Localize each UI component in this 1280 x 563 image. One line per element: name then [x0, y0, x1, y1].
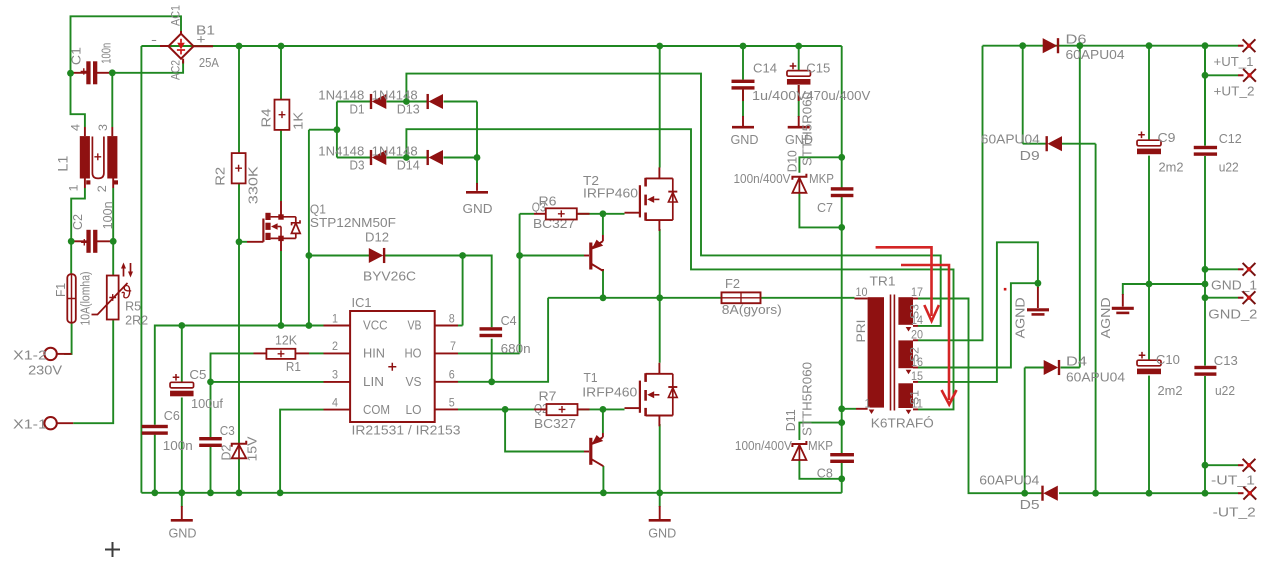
wire R1 left to C3 top corner	[211, 353, 254, 382]
svg-text:2R2: 2R2	[125, 313, 148, 328]
wire Q1 gate node down to zener D2 (crosses VCC, R1, LIN rows)	[238, 242, 240, 444]
svg-text:100n/400V: 100n/400V	[734, 171, 791, 186]
svg-text:1: 1	[865, 399, 871, 411]
svg-text:MKP: MKP	[808, 438, 833, 453]
svg-text:VCC: VCC	[363, 318, 388, 333]
wire GND_2 branch	[1205, 297, 1238, 299]
svg-text:1N4148: 1N4148	[372, 88, 418, 103]
junction at (281,46)	[278, 43, 285, 50]
ground symbol C15	[788, 126, 810, 129]
junction at (659.7,297.8)	[656, 294, 663, 301]
wire T2 source to half-bridge midpoint	[659, 229, 661, 298]
svg-text:100n: 100n	[163, 438, 193, 453]
connector X1-1	[44, 417, 56, 429]
svg-text:R2: R2	[213, 167, 228, 186]
junction at (112.3,72.8)	[109, 69, 116, 76]
svg-text:D3: D3	[350, 157, 365, 172]
transistor Q2 BC327 pnp	[584, 451, 589, 453]
TR1 secondary S2 bar	[898, 340, 913, 368]
svg-text:60APU04: 60APU04	[979, 473, 1039, 488]
svg-text:10: 10	[856, 287, 868, 299]
wire VCC row (pin 1) with C6 corner	[155, 326, 324, 425]
zener diode D2 15V	[232, 441, 247, 447]
wire D12 row left segment	[309, 255, 369, 257]
junction at (491.7,381.8)	[488, 378, 495, 385]
junction at (1095.6,493.2)	[1092, 490, 1099, 497]
svg-text:MKP: MKP	[809, 171, 834, 186]
junction at (239,241.8)	[236, 238, 243, 245]
wire VB junction to C4 top	[463, 256, 492, 328]
junction at (1079.8,45.7)	[1076, 42, 1083, 49]
junction at (113.2,241.3)	[110, 238, 117, 245]
wire R2 bottom to Q1 gate node	[238, 183, 240, 241]
junction at (603,297.8)	[600, 294, 607, 301]
svg-text:AC1: AC1	[169, 5, 183, 26]
diode D5 60APU04	[1043, 486, 1058, 501]
svg-text:GND: GND	[169, 526, 197, 541]
wire TR1 pin 17 down to D5 / D4 anode	[918, 299, 1042, 494]
transformer TR1 primary winding bar	[868, 297, 884, 407]
junction at (659.7,46)	[656, 43, 663, 50]
IC1 origin cross	[388, 363, 396, 371]
svg-text:2: 2	[97, 185, 109, 192]
svg-text:12K: 12K	[275, 333, 297, 348]
wire rail to R2 top	[238, 46, 240, 153]
junction at (477,157.5)	[474, 154, 481, 161]
svg-text:HO: HO	[405, 346, 422, 361]
svg-text:25A: 25A	[199, 55, 219, 70]
diode D4 60APU04	[1044, 360, 1059, 375]
svg-text:IR21531 / IR2153: IR21531 / IR2153	[352, 423, 461, 438]
junction at (841.7,227.4)	[838, 224, 845, 231]
junction at (70.5,73.2)	[67, 70, 74, 77]
junction at (210.5,492.8)	[207, 489, 214, 496]
capacitor C14 1u/400V	[732, 80, 755, 83]
red annotation arrow 2 to TR1 pin 11	[901, 265, 957, 405]
IC1 pin 7 line	[435, 352, 458, 354]
junction at (841.7,157.3)	[838, 154, 845, 161]
svg-text:100n: 100n	[100, 201, 115, 229]
svg-text:STP12NM50F: STP12NM50F	[310, 215, 396, 230]
wire charge pump column x=309 up to D1/D3 node	[308, 130, 310, 256]
IC1 pin 6 line	[435, 381, 458, 383]
svg-text:C4: C4	[501, 313, 517, 328]
wire D13 anode corner down to D14 node	[476, 102, 478, 158]
svg-text:C5: C5	[189, 367, 206, 382]
wire C4 bottom lead	[491, 339, 493, 382]
diode D9 60APU04	[1048, 136, 1063, 151]
junction at (71.2,241.3)	[68, 238, 75, 245]
svg-text:D4: D4	[1066, 353, 1087, 368]
wire D10 snubber loop	[799, 157, 841, 173]
wire zener D2 anode to bottom rail	[238, 459, 240, 493]
svg-text:IRFP460: IRFP460	[583, 185, 638, 200]
R5 current arrows	[124, 263, 131, 277]
svg-text:C1: C1	[69, 47, 84, 65]
thermistor R5	[107, 276, 119, 320]
svg-text:1K: 1K	[290, 112, 305, 130]
junction at (743,46)	[740, 43, 747, 50]
svg-text:PRI: PRI	[854, 320, 868, 343]
junction at (281,325.5)	[278, 322, 285, 329]
red annotation arrow 1 to TR1 pin 14	[876, 247, 939, 321]
wire C1 left to L1 pin 4	[71, 73, 85, 127]
svg-text:R6: R6	[539, 193, 557, 208]
junction at (462.6,255.5)	[459, 252, 466, 259]
svg-text:AGND: AGND	[1013, 297, 1028, 338]
svg-text:-: -	[151, 32, 157, 47]
junction at (505.1,409.4)	[502, 406, 509, 413]
wire Q1 source to VCC row	[280, 251, 282, 326]
wire LO net: pin5 row to R7	[458, 408, 534, 410]
wire GND stub mid	[659, 493, 661, 507]
svg-text:C6: C6	[164, 408, 180, 423]
svg-text:15V: 15V	[245, 436, 260, 461]
wire T1 source to bottom rail	[659, 424, 661, 493]
svg-text:C12: C12	[1219, 131, 1242, 146]
svg-text:C3: C3	[220, 423, 235, 438]
TR1 winding polarity arrows	[869, 410, 875, 415]
svg-text:100n/400V: 100n/400V	[735, 438, 792, 453]
terminal +UT_2	[1238, 74, 1244, 76]
wire D6 cathode drop to D9 right / D4 cathode riser	[1079, 46, 1081, 368]
wire F1 bottom to X1-2	[64, 323, 72, 354]
junction at (841.7,478.8)	[838, 475, 845, 482]
ground symbol left	[171, 519, 193, 522]
wire R5 bottom to X1-1	[73, 320, 113, 424]
svg-text:470u/400V: 470u/400V	[806, 88, 870, 103]
svg-text:HIN: HIN	[363, 346, 385, 361]
junction at (336.9,129.7)	[334, 126, 341, 133]
svg-text:C8: C8	[817, 466, 833, 481]
svg-text:IRFP460: IRFP460	[582, 385, 637, 400]
svg-text:AGND: AGND	[1098, 297, 1113, 338]
TR1 secondary S1 bar	[898, 383, 913, 408]
svg-text:COM: COM	[363, 402, 390, 417]
svg-text:8A(gyors): 8A(gyors)	[722, 302, 782, 317]
junction at (603.4,492.8)	[600, 489, 607, 496]
svg-text:100uf: 100uf	[191, 396, 223, 411]
junction at (1205,493.2)	[1202, 490, 1209, 497]
wire D4 row	[1025, 367, 1045, 369]
mosfet T1 IRFP460	[646, 373, 673, 375]
svg-text:5: 5	[449, 397, 455, 409]
capacitor C10 2m2 electrolytic	[1137, 360, 1161, 366]
junction at (841.7,422.6)	[838, 419, 845, 426]
junction at (798.7,46)	[795, 43, 802, 50]
terminal +UT_1	[1238, 45, 1244, 47]
svg-text:4: 4	[70, 123, 82, 131]
wire HO net: pin7 row, riser to R6, crossing D12 row	[458, 352, 520, 354]
IC1 IR21531 box	[350, 311, 435, 422]
junction at (181.8,325.5)	[178, 322, 185, 329]
svg-text:D12: D12	[365, 229, 389, 244]
junction at (1149,493.2)	[1146, 490, 1153, 497]
wire D4 left down to -UT rail	[1024, 368, 1026, 494]
diode D12 BYV26C	[369, 248, 384, 263]
wire C14 column from top rail to GND	[742, 46, 744, 80]
svg-text:T1: T1	[584, 370, 598, 385]
resistor R1 12K	[266, 349, 295, 359]
svg-text:u22: u22	[1215, 383, 1235, 398]
svg-text:TR1: TR1	[870, 273, 896, 288]
wire T2 drain column from top rail	[659, 46, 661, 168]
inductor L1 common-mode choke	[80, 136, 90, 178]
svg-text:C13: C13	[1214, 353, 1238, 368]
junction at (659.7,492.8)	[656, 489, 663, 496]
diode D6 60APU04	[1043, 38, 1058, 53]
diode D3 1N4148	[372, 150, 387, 165]
wire -UT_1 branch	[1205, 464, 1238, 466]
wire D9 right down to -UT rail	[1095, 144, 1097, 494]
IC1 pin 4 line	[324, 409, 351, 411]
svg-text:7: 7	[450, 341, 456, 353]
wire D11 snubber loop	[799, 423, 841, 440]
wire R1 right to IC pin 2	[309, 352, 324, 354]
svg-text:S1: S1	[908, 390, 922, 405]
junction at (1205,269.3)	[1202, 266, 1209, 273]
transistor Q3 BC327 pnp	[584, 255, 589, 257]
svg-text:GND: GND	[648, 526, 676, 541]
junction at (280.1,492.8)	[277, 489, 284, 496]
wire GND stub left	[181, 493, 183, 507]
diode D1 1N4148	[372, 94, 387, 109]
analog ground AGND 2	[1112, 307, 1134, 310]
svg-text:S3: S3	[908, 304, 922, 319]
svg-text:8: 8	[449, 313, 455, 325]
wire D9 row	[1023, 143, 1046, 145]
wire bottom rail (main primary ground)	[141, 492, 841, 494]
wire GND_1 branch	[1205, 268, 1238, 270]
IC1 pin 1 line	[324, 325, 351, 327]
svg-text:3: 3	[98, 124, 110, 131]
capacitor C9 2m2 electrolytic	[1137, 140, 1161, 146]
wire VB/D12 node column	[308, 256, 310, 326]
svg-text:10A(lomha): 10A(lomha)	[79, 272, 93, 326]
wire D12 row right segment to Q3 base	[520, 255, 584, 257]
wire R7 right to T1 gate node	[577, 408, 625, 410]
TR1 secondary S3 bar	[898, 297, 913, 325]
svg-text:STTH5R060: STTH5R060	[800, 362, 815, 436]
wire D12 cathode to VB junction	[385, 255, 463, 257]
capacitor C4 680n	[480, 327, 503, 330]
wire Q2 collector to bottom rail	[602, 466, 604, 493]
svg-text:-UT_1: -UT_1	[1211, 473, 1255, 488]
net A: D1/D13 junction up and over to TR1 pin 14	[406, 74, 940, 326]
wire +UT_2 branch	[1204, 46, 1206, 146]
terminal GND_2	[1238, 297, 1244, 299]
svg-text:C2: C2	[70, 214, 85, 230]
capacitor C8	[830, 453, 854, 456]
capacitor C1	[86, 61, 90, 84]
svg-text:1: 1	[69, 185, 81, 192]
junction at (406.4,101.5)	[403, 98, 410, 105]
junction at (1205,284)	[1202, 281, 1209, 288]
capacitor C7	[831, 187, 854, 190]
fuse F2 8A	[722, 297, 761, 299]
svg-text:BYV26C: BYV26C	[363, 269, 416, 284]
bridge rectifier B1	[169, 34, 194, 59]
wire LIN row (pin 3)	[211, 381, 324, 383]
svg-text:1N4148: 1N4148	[318, 144, 364, 159]
svg-text:C9: C9	[1158, 130, 1176, 145]
svg-text:1u/400V: 1u/400V	[752, 88, 806, 103]
svg-text:C14: C14	[753, 61, 777, 76]
junction at (1024.7,493.2)	[1021, 490, 1028, 497]
svg-text:60APU04: 60APU04	[981, 132, 1040, 147]
svg-text:LIN: LIN	[363, 374, 384, 389]
mosfet Q1 STP12NM50F	[247, 241, 263, 243]
svg-text:D6: D6	[1066, 32, 1087, 47]
wire C9 column	[1148, 46, 1150, 141]
wire VB junction down to IC pin 8	[462, 256, 464, 326]
junction at (181.8,492.8)	[178, 489, 185, 496]
wire VS riser and pin 6 row	[458, 298, 548, 382]
svg-text:-UT_2: -UT_2	[1213, 505, 1256, 520]
wire Q3 collector to midpoint row	[602, 269, 604, 298]
svg-text:100n: 100n	[99, 43, 114, 64]
wire L1 pin 1 to C2 left and F1	[71, 188, 85, 274]
capacitor C12 u22	[1194, 146, 1217, 149]
net B: D3/D14 junction up and over to TR1 pin 11	[406, 129, 953, 409]
wire TR1 pin 15 to AGND loop	[918, 242, 1038, 382]
junction at (406.4,157.5)	[403, 154, 410, 161]
wire C6 bottom to rail	[154, 435, 156, 493]
wire Q3 emitter link	[602, 214, 604, 235]
svg-text:D1: D1	[350, 101, 365, 116]
wire rail drop to D9 cathode	[1022, 46, 1024, 144]
diode D10	[792, 174, 806, 180]
wire rail to R4 top	[280, 46, 282, 100]
wire GND/C12/C13 column	[1204, 46, 1206, 146]
resistor R2	[232, 153, 246, 183]
svg-text:K6TRAFÓ: K6TRAFÓ	[871, 415, 934, 430]
svg-text:6: 6	[449, 370, 455, 382]
svg-text:D11: D11	[783, 409, 798, 431]
wire COM row (pin 4) to bottom rail	[280, 410, 323, 493]
svg-text:C15: C15	[806, 61, 830, 76]
wire L1 pin 2 to C2 right and R5 top	[112, 188, 114, 276]
wire R6 right to T2 gate node	[577, 213, 625, 215]
svg-text:GND: GND	[731, 132, 759, 147]
junction at (210.5,381.9)	[207, 379, 214, 386]
svg-text:D9: D9	[1020, 148, 1040, 163]
svg-text:D5: D5	[1020, 497, 1040, 512]
svg-text:4: 4	[332, 397, 339, 409]
wire C15 column from top rail to GND	[798, 46, 800, 71]
IC1 pin 2 line	[324, 352, 351, 354]
junction at (1205,297.7)	[1202, 294, 1209, 301]
junction at (308.9,255.5)	[306, 252, 313, 259]
svg-text:D13: D13	[397, 101, 420, 116]
svg-text:2: 2	[332, 341, 338, 353]
TR1 primary pin stubs	[855, 298, 868, 300]
ground symbol C14	[732, 126, 754, 129]
svg-text:BC327: BC327	[534, 416, 576, 431]
svg-text:17: 17	[911, 287, 923, 299]
mosfet T2 IRFP460	[646, 177, 673, 179]
wire D14 node down to GND symbol	[476, 158, 478, 185]
junction at (1149,45.7)	[1146, 42, 1153, 49]
diode D13 1N4148	[429, 94, 444, 109]
IC1 pin 3 line	[324, 381, 351, 383]
IC1 pin 5 line	[435, 408, 458, 410]
svg-text:F2: F2	[725, 276, 740, 291]
capacitor C3	[199, 437, 222, 440]
wire C7 column vertical (top rail down to bottom rail via C7/C8)	[841, 46, 843, 188]
junction at (308.9,325.5)	[306, 322, 313, 329]
svg-text:15: 15	[911, 371, 923, 383]
svg-text:680n: 680n	[501, 341, 531, 356]
svg-text:1N4148: 1N4148	[372, 144, 418, 159]
svg-text:X1-2: X1-2	[13, 347, 47, 362]
svg-text:AC2: AC2	[169, 60, 183, 80]
IC1 pin 8 line	[435, 325, 458, 327]
capacitor C6 100n	[142, 425, 168, 428]
svg-text:R7: R7	[539, 388, 557, 403]
svg-text:GND_2: GND_2	[1208, 307, 1257, 322]
wire D14 row	[406, 157, 427, 159]
svg-text:230V: 230V	[28, 362, 62, 377]
svg-text:R1: R1	[286, 359, 301, 374]
wire R4 bottom to Q1 drain	[280, 130, 282, 201]
junction at (1149,284)	[1146, 281, 1153, 288]
svg-text:VS: VS	[406, 374, 422, 389]
wire top rail from B1 + output to C7 column	[156, 45, 842, 47]
junction at (1205,465.2)	[1202, 462, 1209, 469]
wire gate node stub to Q1	[239, 241, 247, 243]
wire C5 column	[181, 326, 183, 383]
wire T1 drain from midpoint	[659, 298, 661, 363]
svg-text:STTH5R060: STTH5R060	[800, 92, 815, 166]
wire +UT top rail to +UT_1 terminal	[983, 45, 1239, 47]
TR1 secondary pin stubs	[913, 298, 918, 300]
junction at (602.9,213.8)	[600, 210, 607, 217]
capacitor C5 100uf	[170, 382, 194, 388]
svg-text:LO: LO	[406, 402, 422, 417]
wire bridge minus column	[140, 46, 142, 493]
resistor R4	[275, 100, 290, 130]
wire D1 row	[337, 101, 370, 103]
svg-text:60APU04: 60APU04	[1066, 370, 1125, 385]
svg-text:D10: D10	[785, 150, 800, 172]
terminal -UT_1	[1238, 464, 1244, 466]
wire TR1 pin 20 up to +UT rail	[918, 46, 983, 341]
junction at (1037.9,283.2)	[1035, 280, 1042, 287]
wire C3 column	[210, 382, 212, 437]
analog ground AGND 1	[1027, 308, 1049, 311]
svg-text:C10: C10	[1156, 352, 1180, 367]
terminal GND_1	[1238, 268, 1244, 270]
connector X1-2	[44, 348, 56, 360]
svg-text:3: 3	[332, 370, 338, 382]
ground symbol mid	[649, 519, 671, 522]
junction at (519.6,255.5)	[516, 252, 523, 259]
wire TR1 pin 1 to C8 column	[842, 408, 856, 410]
svg-text:GND_1: GND_1	[1211, 278, 1257, 293]
wire D1/D3 left node	[309, 129, 337, 131]
fuse F1	[67, 274, 76, 323]
svg-text:GND: GND	[463, 201, 493, 216]
TR1 core lines	[890, 295, 892, 411]
svg-text:F1: F1	[53, 283, 68, 297]
stray red dot	[1004, 288, 1007, 291]
wire D3 row	[337, 157, 370, 159]
svg-text:VB: VB	[408, 318, 422, 333]
capacitor C15 470u/400V electrolytic	[787, 71, 811, 77]
junction at (154.8,492.8)	[151, 489, 158, 496]
wire -UT bottom rail through D5	[1041, 492, 1043, 494]
